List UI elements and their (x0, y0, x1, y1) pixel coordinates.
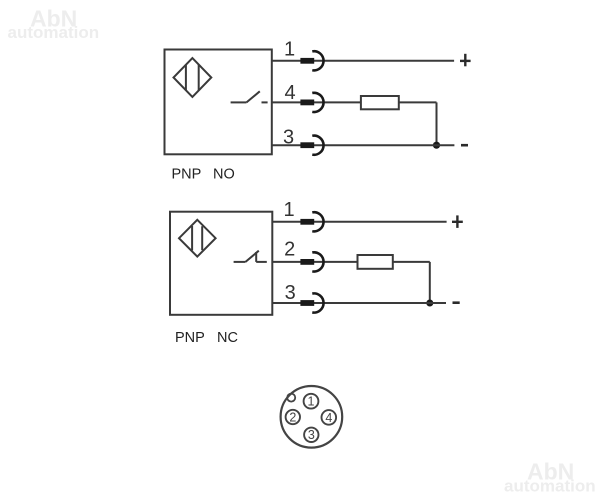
+ terminal (bottom diagram) (452, 215, 463, 228)
keying notch (287, 394, 295, 402)
svg-text:automation: automation (8, 23, 100, 42)
connector pin 1 (plug and socket) (300, 51, 323, 70)
junction dot (top diagram) (433, 142, 440, 149)
wire resistor to corner (U2) (393, 261, 430, 263)
+ terminal (top diagram) (460, 54, 471, 67)
pin 3 label (U2) (285, 282, 296, 304)
connector pin 2 (U2) (300, 252, 323, 271)
svg-text:1: 1 (284, 39, 295, 61)
svg-text:automation: automation (504, 477, 596, 496)
svg-text:NC: NC (217, 330, 238, 346)
svg-text:NO: NO (213, 166, 235, 182)
pin 4 (connector face) (322, 410, 337, 425)
wire pin 3 to - terminal (272, 144, 455, 146)
wire pin 1 to + terminal (272, 60, 454, 62)
label PNP NC (175, 330, 238, 346)
wire resistor to corner (399, 101, 437, 103)
proximity sensor symbol (U2) (179, 220, 216, 257)
wire pin 2 to load resistor (U2) (272, 261, 357, 263)
svg-text:2: 2 (284, 238, 295, 260)
load resistor RL (top diagram) (361, 96, 399, 109)
wire vertical drop to minus rail (U2) (429, 262, 431, 303)
pin 3 label (U1) (283, 126, 294, 148)
pin 2 label (U2) (284, 238, 295, 260)
pin 1 label (U2) (283, 199, 294, 221)
connector pin 3 (plug and socket) (300, 136, 323, 155)
svg-text:2: 2 (289, 410, 296, 424)
svg-text:3: 3 (285, 282, 296, 304)
sensor box U1 (PNP NO) (165, 50, 272, 155)
svg-text:3: 3 (308, 428, 315, 442)
svg-text:1: 1 (308, 395, 315, 409)
wire pin 3 to - terminal (U2) (272, 302, 446, 304)
label PNP NO (172, 166, 235, 182)
wire vertical drop to minus rail (436, 102, 438, 145)
connector pin 1 (U2) (300, 212, 323, 231)
svg-text:4: 4 (284, 82, 295, 104)
NO switch contact (U1) (231, 91, 268, 102)
svg-text:PNP: PNP (175, 330, 205, 346)
connector face (M12 pinout) (281, 386, 343, 448)
pin 3 (connector face) (304, 428, 318, 443)
pin 1 label (U1) (284, 39, 295, 61)
wire pin 4 to load resistor (272, 101, 361, 103)
junction dot (bottom diagram) (426, 300, 433, 307)
NC switch contact (U2) (234, 251, 267, 262)
proximity sensor symbol (U1) (174, 58, 212, 97)
svg-text:4: 4 (325, 411, 332, 425)
connector pin 4 (plug and socket) (300, 93, 323, 112)
svg-text:PNP: PNP (172, 166, 202, 182)
- terminal (bottom diagram) (453, 301, 460, 304)
wire pin 1 to + terminal (U2) (272, 221, 446, 223)
pin 4 label (U1) (284, 82, 295, 104)
connector pin 3 (U2) (300, 293, 323, 312)
sensor box U2 (PNP NC) (170, 212, 272, 315)
pin 1 (connector face) (304, 394, 319, 409)
load resistor RL (bottom diagram) (358, 255, 393, 269)
- terminal (top diagram) (461, 144, 468, 147)
pin 2 (connector face) (286, 410, 300, 425)
svg-text:1: 1 (283, 199, 294, 221)
